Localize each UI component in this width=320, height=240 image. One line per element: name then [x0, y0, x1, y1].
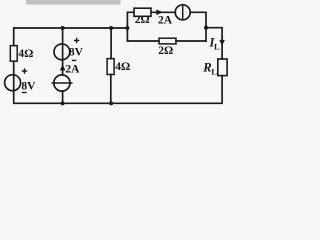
svg-text:L: L: [211, 66, 217, 76]
svg-text:2A: 2A: [65, 63, 80, 75]
svg-text:2A: 2A: [158, 15, 173, 27]
svg-text:8V: 8V: [69, 47, 84, 59]
svg-text:2Ω: 2Ω: [135, 14, 150, 26]
svg-text:2Ω: 2Ω: [158, 45, 173, 57]
svg-text:L: L: [214, 41, 220, 51]
svg-text:4Ω: 4Ω: [18, 48, 33, 60]
svg-text:8V: 8V: [21, 80, 36, 92]
svg-text:4Ω: 4Ω: [115, 61, 130, 73]
svg-text:R: R: [202, 60, 211, 74]
